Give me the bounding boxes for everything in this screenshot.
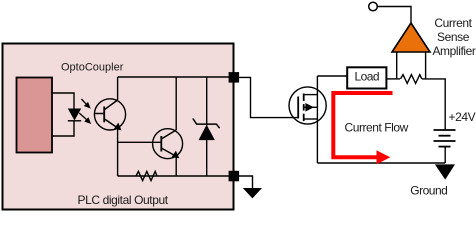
svg-text:Sense: Sense (437, 30, 470, 44)
svg-text:Load: Load (355, 70, 380, 84)
svg-text:Current Flow: Current Flow (345, 121, 409, 135)
svg-text:Current: Current (434, 16, 472, 30)
svg-text:OptoCoupler: OptoCoupler (61, 62, 124, 74)
svg-text:PLC digital Output: PLC digital Output (78, 193, 169, 207)
svg-text:Amplifier: Amplifier (432, 44, 475, 58)
svg-text:+24V: +24V (449, 110, 476, 124)
svg-text:Ground: Ground (410, 184, 447, 198)
